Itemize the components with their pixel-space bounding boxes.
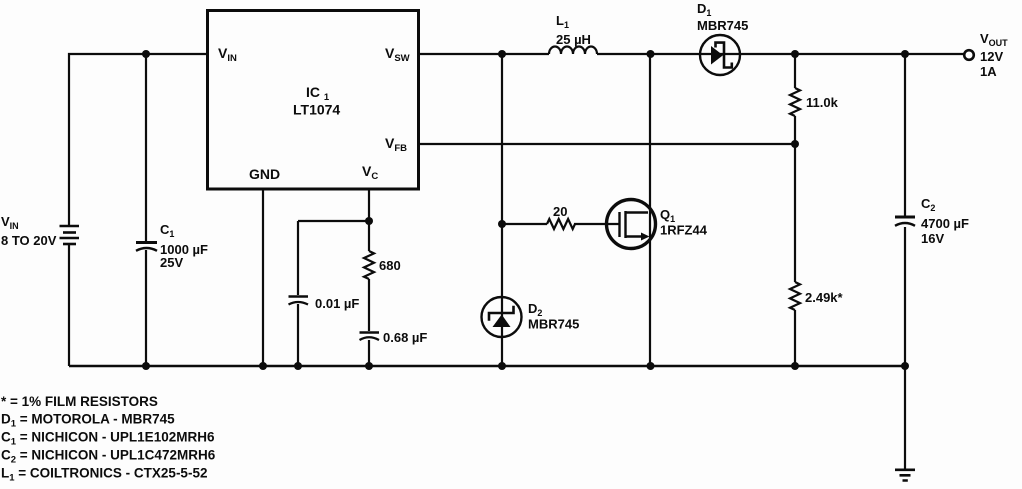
node rail GND pin [259,362,267,370]
battery VIN plate short [63,231,76,234]
svg-text:16V: 16V [921,231,944,246]
diode D2 triangle [493,315,511,328]
resistor 2.49k zigzag [790,282,800,310]
svg-text:0.68 µF: 0.68 µF [383,330,427,345]
svg-text:680: 680 [379,258,401,273]
svg-text:25V: 25V [160,255,183,270]
node at Q1 drain top [647,50,655,58]
resistor 11.0k zigzag [790,88,800,116]
node rail 0.01uF [294,362,302,370]
wire gate branch left segment [502,223,547,225]
capacitor C1 curved plate [136,248,157,251]
transistor Q1 circle [607,200,656,249]
wire bottom rail [69,365,905,367]
node rail 2.49k [791,362,799,370]
svg-text:1RFZ44: 1RFZ44 [660,223,708,238]
node rail Q1 source [647,362,655,370]
svg-text:1A: 1A [980,64,997,79]
wire GND pin down [262,189,264,366]
capacitor C1 top plate [136,241,157,244]
capacitor 0.01uF curved plate [289,302,309,305]
battery VIN plate short bottom [63,243,76,246]
svg-text:20: 20 [553,204,567,219]
svg-text:0.01 µF: 0.01 µF [315,296,359,311]
svg-text:MBR745: MBR745 [697,18,748,33]
diode D2 schottky bar [489,306,514,321]
battery VIN plate long [60,237,80,240]
wire ground stem [904,366,906,469]
diode D1 schottky bar [716,43,732,68]
transistor Q1 gate bar [618,212,620,237]
svg-text:LT1074: LT1074 [293,102,340,118]
resistor 680 zigzag [364,251,374,279]
node at switch node top [498,50,506,58]
capacitor 0.68uF top plate [360,331,380,334]
svg-text:8 TO 20V: 8 TO 20V [1,233,57,248]
diode D1 circle [700,35,740,75]
wire VC subnet horizontal [298,220,369,222]
wire gate branch right segment [574,223,620,225]
battery VIN plate long top [60,225,80,228]
svg-text:MBR745: MBR745 [528,317,579,332]
wire L1 to D1 to node [597,53,795,55]
wire VC pin down [368,189,370,221]
wire VFB horizontal [418,143,795,145]
node at VFB junction [791,140,799,148]
svg-text:11.0k: 11.0k [806,95,839,110]
wire left vertical below battery to bottom rail [68,244,70,366]
node at C2 top [901,50,909,58]
transistor Q1 drain link [626,211,649,213]
resistor 20 zigzag [547,219,575,229]
capacitor C2 curved plate [895,223,915,226]
wire 11.0k branch [794,54,796,144]
wire 680 to 0.68uF branch [368,221,370,366]
capacitor 0.01uF top plate [289,295,309,298]
node at 11.0k top [791,50,799,58]
svg-text:4700 µF: 4700 µF [921,216,969,231]
ground symbol [895,470,915,481]
wire switch-node vertical through D2 [501,54,503,366]
wire VSW to L1 [418,53,549,55]
transistor Q1 source link [626,235,643,237]
svg-text:12V: 12V [980,49,1003,64]
wire C1 branch lower [145,250,147,366]
svg-text:GND: GND [249,166,280,182]
node at gate branch [498,220,506,228]
node at C1 top [142,50,150,58]
output terminal VOUT [964,50,974,60]
node at VC junction [365,217,373,225]
svg-text:25 µH: 25 µH [556,32,591,47]
svg-text:* = 1% FILM RESISTORS: * = 1% FILM RESISTORS [1,394,158,409]
transistor Q1 arrow [641,233,650,241]
diode D1 triangle [711,46,723,65]
wire C1 branch upper [145,54,147,241]
wire Q1 drain-source vertical [649,54,651,366]
transistor Q1 channel bar [624,211,626,238]
node rail 0.68uF [365,362,373,370]
inductor L1 [549,47,597,54]
wire 0.01uF branch [297,221,299,366]
wire 2.49k branch [794,144,796,366]
diode D2 circle [482,297,522,337]
wire node to VOUT terminal [795,53,964,55]
node rail ground corner [901,362,909,370]
wire C2 branch [904,54,906,366]
capacitor C2 top plate [895,216,915,219]
node rail C1 [142,362,150,370]
capacitor 0.68uF curved plate [360,337,380,340]
svg-text:2.49k*: 2.49k* [805,290,844,305]
IC U1 LT1074 box [208,11,419,190]
node rail D2 [498,362,506,370]
wire top-left from battery to IC VIN [69,54,207,226]
